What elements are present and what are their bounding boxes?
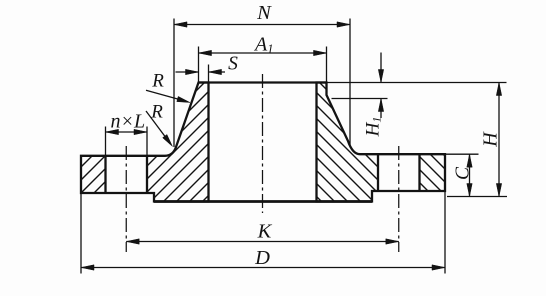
svg-text:N: N [256, 2, 272, 24]
svg-text:C: C [453, 166, 474, 180]
svg-text:R: R [150, 101, 163, 122]
svg-text:n×L: n×L [111, 111, 146, 133]
svg-text:S: S [228, 54, 238, 75]
svg-text:R: R [151, 71, 164, 92]
svg-text:K: K [257, 221, 273, 243]
svg-text:D: D [254, 247, 270, 269]
svg-text:H: H [480, 131, 502, 148]
